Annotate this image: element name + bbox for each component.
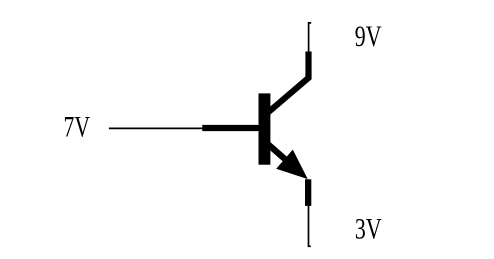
svg-text:9V: 9V [355,21,382,53]
svg-text:7V: 7V [64,112,91,144]
svg-text:3V: 3V [355,214,382,246]
